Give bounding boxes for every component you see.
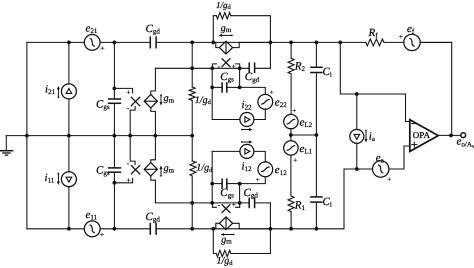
capacitor Ci upper bbox=[311, 42, 322, 135]
node drain-row/nullator right bbox=[238, 66, 242, 70]
node drain-row-lower/nullator left bbox=[210, 201, 214, 205]
svg-text:Cgs: Cgs bbox=[220, 71, 234, 84]
svg-text:Cgd: Cgd bbox=[146, 211, 161, 224]
capacitor Ci lower bbox=[311, 135, 322, 229]
svg-text:+: + bbox=[232, 201, 236, 209]
current source ia bbox=[350, 94, 364, 169]
label Cgd upper-right bbox=[245, 71, 260, 84]
svg-text:+: + bbox=[127, 176, 131, 184]
resistor 1/gd upper loop bbox=[213, 13, 270, 69]
svg-text:Ci: Ci bbox=[323, 196, 332, 209]
label 1/gd upper-left bbox=[195, 95, 212, 106]
label R2 bbox=[294, 61, 306, 74]
node top-rail/1gd link bbox=[190, 41, 194, 45]
label e21 bbox=[86, 23, 105, 53]
label Cgs upper-right bbox=[220, 71, 234, 84]
controlled source gm upper-left bbox=[144, 68, 157, 135]
node drain-row/1gd bbox=[190, 66, 194, 70]
node bottom-rail/i11 bbox=[67, 227, 71, 231]
label i12 bbox=[241, 141, 253, 174]
wire drain row upper y=68.3 bbox=[155, 67, 270, 69]
label gm upper-center bbox=[219, 23, 233, 37]
label 1/gd upper loop bbox=[216, 0, 232, 11]
wire Cgs column lower x=114.4 bbox=[113, 136, 115, 229]
nullator X lower-left bbox=[114, 136, 139, 185]
label Cgs upper-left bbox=[96, 98, 110, 111]
svg-text:+: + bbox=[100, 231, 104, 239]
wire drain row lower y=202.9 bbox=[155, 202, 270, 204]
svg-text:i22: i22 bbox=[242, 99, 253, 112]
wire x=212.2 column (gate-source node) bbox=[211, 68, 213, 119]
voltage source ef bbox=[404, 34, 420, 50]
svg-text:eo/Av: eo/Av bbox=[457, 136, 474, 150]
svg-text:Cgd: Cgd bbox=[146, 23, 161, 36]
resistor 1/gd lower-left bbox=[190, 136, 196, 229]
resistor Rf bbox=[366, 39, 384, 46]
capacitor Cgs upper-left bbox=[109, 99, 121, 103]
label e12 bbox=[256, 164, 287, 184]
node bridge right lower bbox=[238, 182, 242, 186]
svg-text:Cgd: Cgd bbox=[245, 71, 260, 84]
svg-text:i12: i12 bbox=[242, 161, 253, 174]
svg-text:-: - bbox=[127, 104, 130, 112]
wire i21/i11 column x=68.9 bbox=[68, 42, 70, 228]
label Cgs lower-right bbox=[220, 187, 234, 200]
capacitor Cgs lower-left bbox=[109, 168, 121, 172]
svg-text:+: + bbox=[292, 107, 296, 115]
label i21 bbox=[45, 84, 60, 99]
label Cgd upper-left bbox=[146, 23, 161, 36]
label Cgd lower-left bbox=[146, 211, 161, 224]
capacitor Cgd upper-right (series in drain row) bbox=[249, 63, 254, 72]
node mid/nullator stub bbox=[128, 134, 132, 138]
resistor R1 bbox=[288, 196, 294, 229]
wire eL mid tap bbox=[291, 134, 317, 136]
svg-text:+: + bbox=[293, 157, 297, 165]
label gm upper-left bbox=[160, 93, 175, 106]
ground bbox=[0, 151, 12, 156]
label Ci lower bbox=[323, 196, 332, 209]
node top-rail/inverting tap bbox=[338, 41, 342, 45]
svg-text:R1: R1 bbox=[294, 200, 306, 213]
wire left vertical ground rail x=26.9 bbox=[26, 42, 28, 228]
node ea-wire/ia bbox=[355, 167, 359, 171]
label R1 bbox=[294, 200, 306, 213]
current source i21 bbox=[61, 84, 76, 99]
node drain-row-lower/1gd bbox=[190, 201, 194, 205]
wire x=212.2 column lower bbox=[211, 151, 213, 203]
label ia bbox=[365, 130, 376, 144]
wire top rail (gate/drain row, y=42.4) bbox=[27, 41, 452, 43]
voltage source e11 bbox=[84, 221, 100, 237]
label gm lower-center bbox=[221, 233, 235, 246]
svg-text:eL1: eL1 bbox=[300, 143, 313, 156]
resistor 1/gd lower loop bbox=[213, 203, 270, 257]
node bottom-rail/loop right bbox=[269, 227, 273, 231]
label e_o/Av bbox=[457, 136, 474, 150]
label ef bbox=[399, 23, 415, 41]
label Rf bbox=[368, 27, 379, 40]
svg-text:+: + bbox=[387, 175, 391, 183]
wire x=239.6 link bbox=[239, 68, 241, 87]
nullator X upper-right bbox=[212, 59, 239, 71]
svg-text:gm: gm bbox=[164, 163, 175, 174]
svg-text:Ci: Ci bbox=[323, 66, 332, 79]
wire mid ground rail y=135.6 bbox=[6, 136, 192, 151]
voltage source e21 bbox=[84, 35, 100, 51]
capacitor Cgs lower-right (bridge) bbox=[212, 179, 239, 188]
current source i12 bbox=[212, 144, 254, 158]
svg-text:+: + bbox=[399, 33, 403, 41]
capacitor Cgs upper-right (bridge) bbox=[212, 83, 239, 92]
svg-text:gm: gm bbox=[164, 93, 175, 104]
current source i11 bbox=[61, 172, 76, 187]
svg-text:+: + bbox=[256, 176, 260, 184]
svg-text:1/gd: 1/gd bbox=[196, 162, 213, 173]
capacitor Cgd lower-right (series in drain row) bbox=[249, 198, 254, 207]
op-amp OPA bbox=[410, 120, 439, 152]
node eL tap left bbox=[289, 133, 293, 137]
node mid/left vertical bbox=[25, 134, 29, 138]
label i11 bbox=[45, 172, 60, 185]
label i22 bbox=[241, 99, 253, 131]
node drain-row-lower/nullator right bbox=[238, 201, 242, 205]
wire inverting input path bbox=[340, 42, 410, 121]
node bottom-rail/loop left bbox=[211, 227, 215, 231]
svg-text:e22: e22 bbox=[275, 96, 287, 109]
voltage source ea bbox=[344, 146, 410, 229]
label eL1 bbox=[293, 143, 312, 165]
capacitor Cgd upper-left (series in top rail) bbox=[150, 37, 156, 48]
svg-text:ia: ia bbox=[369, 131, 376, 144]
node mid/Cgs column bbox=[113, 134, 117, 138]
svg-text:OPA: OPA bbox=[413, 130, 431, 140]
controlled source gm lower-center (in bottom rail) bbox=[213, 217, 270, 230]
svg-text:e21: e21 bbox=[86, 23, 98, 36]
svg-text:Cgd: Cgd bbox=[244, 187, 259, 200]
svg-text:-: - bbox=[218, 62, 221, 70]
wire Cgs column upper x=114.4 bbox=[113, 42, 115, 135]
svg-text:Cgs: Cgs bbox=[96, 98, 110, 111]
label e22 bbox=[270, 88, 287, 109]
node bridge left upper bbox=[210, 86, 214, 90]
wire output bbox=[438, 134, 461, 136]
node output/feedback bbox=[449, 134, 453, 138]
label Cgs lower-left bbox=[96, 164, 110, 177]
node bottom-rail/R1 bbox=[289, 227, 293, 231]
current source i22 bbox=[212, 113, 254, 127]
node Cgs column lower bbox=[113, 181, 117, 185]
voltage source eL1 bbox=[284, 141, 298, 196]
voltage source eL2 bbox=[284, 114, 298, 140]
svg-text:1/gd: 1/gd bbox=[217, 256, 234, 267]
node top-rail/R2 bbox=[289, 41, 293, 45]
label 1/gd lower-left bbox=[196, 162, 213, 173]
svg-text:i21: i21 bbox=[45, 84, 56, 97]
voltage source e22 bbox=[240, 87, 273, 119]
svg-text:Rf: Rf bbox=[368, 27, 379, 40]
node top-rail/loop right bbox=[269, 41, 273, 45]
svg-text:1/gd: 1/gd bbox=[195, 95, 212, 106]
svg-text:1/gd: 1/gd bbox=[216, 0, 232, 11]
node Cgs column upper bbox=[113, 87, 117, 91]
node bottom-rail/Cgs column bbox=[113, 227, 117, 231]
svg-text:gm: gm bbox=[221, 23, 232, 34]
svg-text:i11: i11 bbox=[45, 172, 55, 185]
controlled source gm upper-center (in top rail) bbox=[213, 41, 270, 54]
node output terminal bbox=[461, 133, 466, 138]
svg-text:ef: ef bbox=[407, 23, 415, 36]
voltage source e12 bbox=[240, 151, 273, 183]
label 1/gd lower loop bbox=[217, 256, 234, 267]
label Cgd lower-right bbox=[244, 187, 259, 200]
resistor R2 bbox=[288, 42, 294, 114]
wire bottom rail y=228.8 bbox=[27, 228, 344, 230]
label eL2 bbox=[292, 107, 312, 129]
svg-text:e11: e11 bbox=[86, 209, 98, 222]
node mid/gm branch bbox=[154, 134, 158, 138]
node drain-row/nullator left bbox=[210, 66, 214, 70]
svg-text:+: + bbox=[101, 45, 105, 53]
node top-rail/Ci bbox=[315, 41, 319, 45]
node eL tap right bbox=[315, 133, 319, 137]
svg-text:+: + bbox=[232, 63, 236, 71]
node top-rail/loop left bbox=[211, 41, 215, 45]
controlled source gm lower-left bbox=[144, 136, 157, 203]
svg-text:eL2: eL2 bbox=[300, 117, 313, 130]
node bottom-rail/1gd link bbox=[190, 227, 194, 231]
svg-text:+: + bbox=[270, 88, 274, 96]
nullator X lower-right bbox=[212, 201, 239, 213]
node mid/1gd branch bbox=[190, 134, 194, 138]
svg-text:+: + bbox=[127, 89, 131, 97]
node top-rail/i21 bbox=[67, 41, 71, 45]
svg-text:Cgs: Cgs bbox=[220, 187, 234, 200]
svg-text:ea: ea bbox=[376, 152, 385, 165]
resistor 1/gd upper-left bbox=[189, 42, 195, 135]
node bridge left lower bbox=[210, 182, 214, 186]
label ea bbox=[376, 152, 392, 184]
capacitor Cgd lower-left (series in bottom rail) bbox=[150, 224, 156, 235]
label e11 bbox=[86, 209, 105, 239]
svg-text:R2: R2 bbox=[294, 61, 306, 74]
node inverting-path/ia bbox=[355, 92, 359, 96]
nullator X upper-left bbox=[114, 88, 139, 135]
node bridge right upper bbox=[238, 86, 242, 90]
wire x=239.6 link lower bbox=[239, 184, 241, 203]
node bottom-rail/Ci bbox=[315, 227, 319, 231]
svg-text:gm: gm bbox=[221, 234, 232, 245]
node top-rail/Cgs column bbox=[113, 41, 117, 45]
svg-text:-: - bbox=[127, 159, 130, 167]
svg-text:Cgs: Cgs bbox=[96, 164, 110, 177]
wire feedback right leg bbox=[420, 42, 451, 135]
label gm lower-left bbox=[160, 163, 175, 177]
label Ci upper bbox=[323, 66, 332, 79]
svg-text:e12: e12 bbox=[275, 164, 287, 177]
node mid/i column bbox=[67, 134, 71, 138]
svg-text:-: - bbox=[218, 201, 221, 209]
